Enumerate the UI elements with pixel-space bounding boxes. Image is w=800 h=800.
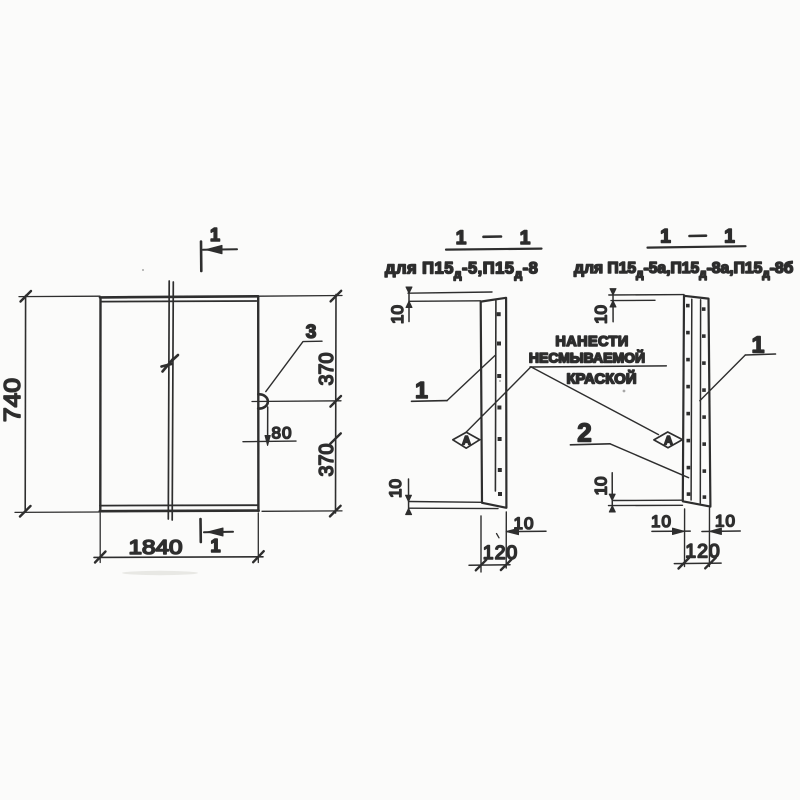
dimension 10 (middle, top-left) bbox=[388, 287, 492, 324]
svg-text:КРАСКОЙ: КРАСКОЙ bbox=[567, 370, 637, 388]
leader and label 2 (right) bbox=[570, 418, 688, 478]
centerline squiggle mark bbox=[162, 355, 179, 372]
section title 1-1 (right) bbox=[648, 227, 746, 248]
svg-text:120: 120 bbox=[483, 542, 519, 564]
svg-text:1: 1 bbox=[752, 332, 765, 358]
dimension 120 (right) bbox=[674, 541, 721, 569]
svg-text:1: 1 bbox=[210, 225, 220, 245]
svg-text:1: 1 bbox=[660, 227, 671, 248]
svg-text:1: 1 bbox=[456, 228, 467, 249]
leader and label 1 (right) bbox=[700, 332, 776, 401]
svg-text:A: A bbox=[664, 434, 673, 448]
section element (middle): panel edge rib bbox=[481, 298, 507, 508]
dimension 10 (right section, bottom-left) bbox=[592, 473, 683, 512]
svg-text:740: 740 bbox=[0, 378, 25, 422]
dimension 80 bbox=[243, 407, 296, 446]
section mark 1 (top) bbox=[201, 225, 237, 271]
svg-text:10: 10 bbox=[592, 477, 611, 496]
section mark 1 (bottom) bbox=[201, 519, 234, 556]
svg-text:370: 370 bbox=[316, 444, 338, 477]
svg-text:10: 10 bbox=[514, 514, 535, 533]
dimension 10 (right section, bottom flange right) bbox=[702, 508, 740, 567]
svg-text:370: 370 bbox=[316, 353, 338, 386]
svg-text:НЕСМЫВАЕМОЙ: НЕСМЫВАЕМОЙ bbox=[529, 349, 645, 366]
svg-text:1: 1 bbox=[210, 536, 220, 556]
dimension 10 (middle, bottom-right flange) bbox=[497, 512, 547, 568]
rebar dots right column (right section) bbox=[702, 307, 706, 499]
dimension 120 (middle) bbox=[469, 516, 518, 572]
leader and label 1 (middle) bbox=[412, 356, 496, 404]
dimension 10 (middle, bottom-left) bbox=[386, 479, 498, 515]
A-flag (right) bbox=[654, 432, 683, 448]
svg-text:3: 3 bbox=[306, 322, 317, 343]
svg-text:для П15д-5,П15д-8: для П15д-5,П15д-8 bbox=[385, 260, 538, 282]
paint note text bbox=[529, 334, 666, 388]
section element (right): panel edge rib with two meshes bbox=[683, 296, 711, 507]
dimension 1840 (bottom) bbox=[94, 513, 264, 563]
svg-text:A: A bbox=[462, 434, 471, 448]
svg-text:10: 10 bbox=[651, 512, 672, 531]
dimension 10 (right section, bottom flange left) bbox=[651, 509, 690, 567]
section title 1-1 (middle) bbox=[446, 228, 542, 250]
paint mark leader (text to right A-flag) bbox=[531, 367, 659, 435]
svg-text:1840: 1840 bbox=[129, 537, 183, 559]
dimension chain 370/80/370 (right of plan) bbox=[252, 291, 342, 517]
rebar dots left column (right section) bbox=[686, 304, 690, 496]
faint scan smudge below 1840 bbox=[122, 571, 198, 575]
rebar dots (middle section) bbox=[497, 312, 502, 496]
dimension 740 (left) bbox=[0, 291, 100, 517]
svg-text:для П15д-5а,П15д-8а,П15д-8б: для П15д-5а,П15д-8а,П15д-8б bbox=[574, 260, 794, 281]
svg-text:1: 1 bbox=[415, 377, 428, 403]
svg-text:80: 80 bbox=[272, 424, 293, 443]
svg-text:10: 10 bbox=[715, 512, 736, 531]
dimension 10 (right section, top-left) bbox=[592, 289, 685, 324]
scan specks bbox=[142, 269, 625, 392]
svg-text:НАНЕСТИ: НАНЕСТИ bbox=[555, 334, 628, 350]
svg-text:2: 2 bbox=[577, 418, 591, 448]
leader and label 3 bbox=[266, 322, 322, 392]
panel centerline (double joint line) bbox=[168, 281, 173, 520]
svg-text:1: 1 bbox=[520, 228, 531, 249]
svg-text:1: 1 bbox=[724, 227, 735, 248]
detail circle 3 (lifting loop on edge) bbox=[258, 394, 268, 408]
svg-text:10: 10 bbox=[592, 305, 611, 324]
paint mark leader (text to middle A-flag) bbox=[466, 367, 531, 432]
panel outline (plan view) bbox=[100, 296, 259, 511]
svg-text:120: 120 bbox=[685, 541, 721, 563]
svg-text:10: 10 bbox=[388, 305, 407, 324]
svg-text:10: 10 bbox=[386, 479, 405, 498]
A-flag (middle) bbox=[453, 432, 480, 448]
